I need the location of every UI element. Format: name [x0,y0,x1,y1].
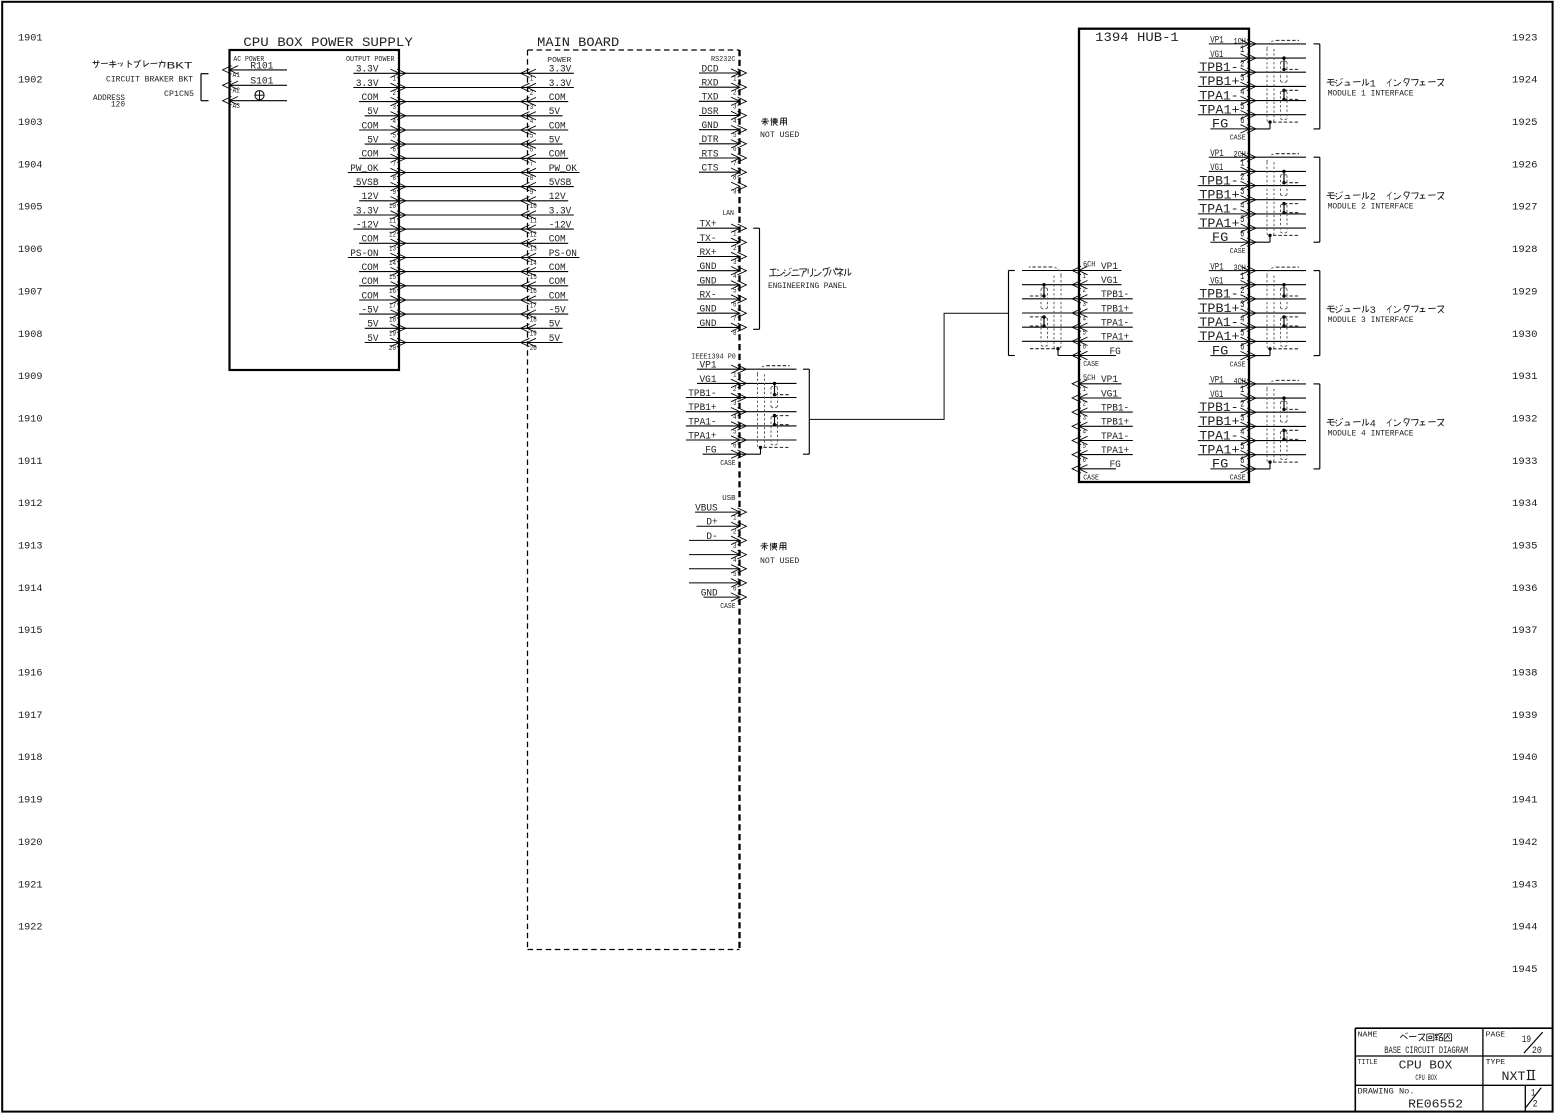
svg-text:1: 1 [530,76,534,84]
svg-text:1936: 1936 [1512,584,1538,595]
svg-text:5: 5 [733,428,737,436]
svg-text:5: 5 [1083,443,1087,451]
svg-text:DTR: DTR [702,135,719,146]
svg-text:CASE: CASE [1083,361,1099,369]
svg-text:19: 19 [389,331,396,339]
svg-text:3.3V: 3.3V [549,79,572,90]
svg-text:TITLE: TITLE [1358,1059,1378,1067]
svg-text:7: 7 [733,316,737,324]
svg-text:1941: 1941 [1512,796,1538,807]
svg-text:5VSB: 5VSB [549,178,572,189]
svg-text:1915: 1915 [18,626,43,637]
svg-text:1934: 1934 [1512,499,1538,510]
svg-text:COM: COM [549,277,566,288]
svg-text:5V: 5V [549,136,561,147]
svg-text:NAME: NAME [1358,1031,1379,1039]
svg-text:1922: 1922 [18,923,43,934]
svg-text:-5V: -5V [549,306,567,317]
svg-text:1: 1 [733,75,737,83]
svg-text:6: 6 [733,301,737,309]
svg-text:1942: 1942 [1512,838,1538,849]
svg-text:MODULE 3 INTERFACE: MODULE 3 INTERFACE [1328,316,1414,325]
svg-text:8: 8 [530,175,534,183]
svg-text:120: 120 [111,100,125,109]
svg-text:16: 16 [389,288,396,296]
svg-text:TPA1-: TPA1- [1199,203,1238,217]
svg-text:7: 7 [733,160,737,168]
svg-text:CASE: CASE [720,460,735,468]
svg-text:17: 17 [389,302,396,310]
svg-text:GND: GND [700,276,717,287]
svg-text:1: 1 [1083,386,1087,394]
svg-text:14: 14 [389,260,396,268]
svg-text:1921: 1921 [18,880,43,891]
svg-text:1929: 1929 [1512,287,1538,298]
svg-text:20: 20 [1532,1046,1542,1057]
svg-text:MODULE 1 INTERFACE: MODULE 1 INTERFACE [1328,89,1414,98]
svg-text:1938: 1938 [1512,669,1538,680]
svg-text:RS232C: RS232C [711,56,736,64]
svg-text:VP1: VP1 [1101,262,1118,273]
svg-text:14: 14 [530,260,537,268]
svg-text:1931: 1931 [1512,372,1538,383]
svg-text:7: 7 [393,161,397,169]
svg-text:NXT: NXT [1502,1070,1527,1084]
svg-text:NOT USED: NOT USED [760,557,800,566]
svg-text:MODULE 2 INTERFACE: MODULE 2 INTERFACE [1328,203,1414,212]
svg-text:5: 5 [733,287,737,295]
svg-text:PW_OK: PW_OK [350,164,379,175]
svg-text:2: 2 [530,90,534,98]
svg-text:COM: COM [549,263,566,274]
svg-text:1937: 1937 [1512,626,1538,637]
svg-text:A1: A1 [233,72,240,80]
svg-text:1939: 1939 [1512,711,1538,722]
svg-text:3.3V: 3.3V [356,79,379,90]
svg-text:2: 2 [733,386,737,394]
svg-text:5V: 5V [367,320,379,331]
svg-text:GND: GND [700,319,717,330]
svg-text:TPB1+: TPB1+ [1199,302,1239,316]
svg-text:18: 18 [530,317,537,325]
svg-text:20: 20 [389,345,396,353]
svg-text:S101: S101 [250,77,273,88]
svg-text:1905: 1905 [18,203,43,214]
svg-text:1943: 1943 [1512,880,1538,891]
svg-text:TPB1-: TPB1- [1101,290,1129,301]
svg-text:FG: FG [1212,344,1228,358]
svg-text:VG1: VG1 [1210,276,1223,287]
svg-text:COM: COM [549,93,566,104]
svg-text:CP1CN5: CP1CN5 [164,90,194,99]
svg-text:VG1: VG1 [700,375,717,386]
svg-text:4: 4 [1083,315,1087,323]
svg-text:1923: 1923 [1512,33,1538,44]
svg-text:TPB1-: TPB1- [1199,61,1238,75]
svg-text:5: 5 [393,132,397,140]
svg-text:PS-ON: PS-ON [350,249,378,260]
svg-text:5V: 5V [549,334,561,345]
svg-text:BASE CIRCUIT DIAGRAM: BASE CIRCUIT DIAGRAM [1384,1045,1468,1057]
svg-text:1906: 1906 [18,245,43,256]
svg-text:2: 2 [1083,287,1087,295]
svg-text:FG: FG [1110,460,1121,471]
svg-text:1944: 1944 [1512,923,1538,934]
svg-text:1: 1 [733,231,737,239]
svg-text:2: 2 [393,90,397,98]
svg-text:1933: 1933 [1512,457,1538,468]
svg-text:1924: 1924 [1512,76,1538,87]
svg-text:1902: 1902 [18,76,43,87]
svg-text:MODULE 4 INTERFACE: MODULE 4 INTERFACE [1328,429,1414,438]
svg-text:4: 4 [1083,429,1087,437]
svg-text:17: 17 [530,302,537,310]
svg-text:5: 5 [733,571,737,579]
svg-text:TPA1+: TPA1+ [1199,103,1239,117]
svg-text:1910: 1910 [18,415,43,426]
svg-text:5V: 5V [367,334,379,345]
svg-text:4: 4 [530,118,534,126]
svg-text:5: 5 [733,132,737,140]
svg-text:6: 6 [530,147,534,155]
svg-text:12V: 12V [362,192,380,203]
svg-text:COM: COM [362,235,379,246]
svg-text:TPA1-: TPA1- [1199,429,1238,443]
svg-text:8: 8 [733,175,737,183]
svg-text:GND: GND [700,262,717,273]
svg-text:BKT: BKT [167,61,193,73]
svg-text:13: 13 [389,246,396,254]
svg-text:GND: GND [702,121,719,132]
svg-text:PAGE: PAGE [1486,1031,1506,1039]
svg-text:7: 7 [530,161,534,169]
svg-text:CIRCUIT BRAKER BKT: CIRCUIT BRAKER BKT [106,75,193,84]
svg-text:TX-: TX- [700,234,717,245]
svg-text:1907: 1907 [18,287,43,298]
svg-text:1926: 1926 [1512,160,1538,171]
svg-text:1932: 1932 [1512,415,1538,426]
svg-text:VP1: VP1 [1210,149,1223,160]
svg-text:3: 3 [1083,301,1087,309]
svg-text:2: 2 [1533,1100,1538,1111]
svg-text:3.3V: 3.3V [356,206,379,217]
svg-text:VP1: VP1 [1210,262,1223,273]
svg-text:2: 2 [1083,400,1087,408]
svg-text:TPB1-: TPB1- [1101,404,1129,415]
svg-text:5V: 5V [549,320,561,331]
svg-text:1919: 1919 [18,796,43,807]
svg-text:3: 3 [733,543,737,551]
svg-text:5: 5 [530,132,534,140]
svg-text:RTS: RTS [702,149,719,160]
svg-text:RX-: RX- [700,290,717,301]
svg-text:NOT USED: NOT USED [760,131,800,140]
svg-text:VG1: VG1 [1210,390,1223,401]
svg-text:GND: GND [700,305,717,316]
svg-text:D-: D- [706,532,717,543]
svg-text:TPB1+: TPB1+ [1199,75,1239,89]
svg-text:3: 3 [393,104,397,112]
svg-text:1928: 1928 [1512,245,1538,256]
svg-text:4: 4 [733,557,737,565]
svg-text:5V: 5V [367,107,379,118]
svg-text:12V: 12V [549,192,567,203]
svg-text:1: 1 [733,515,737,523]
svg-text:2: 2 [733,529,737,537]
svg-text:2: 2 [733,90,737,98]
svg-text:1: 1 [393,76,397,84]
svg-text:VG1: VG1 [1101,389,1118,400]
svg-text:TYPE: TYPE [1486,1059,1506,1067]
svg-text:CPU BOX: CPU BOX [1399,1058,1453,1072]
svg-text:1: 1 [733,372,737,380]
svg-text:1: 1 [1083,273,1087,281]
svg-text:DSR: DSR [702,107,719,118]
svg-text:12: 12 [530,232,537,240]
svg-text:COM: COM [362,150,379,161]
svg-text:4: 4 [733,414,737,422]
svg-text:TPA1+: TPA1+ [1101,333,1129,344]
svg-text:TPA1-: TPA1- [1101,432,1129,443]
svg-text:3: 3 [530,104,534,112]
svg-text:-12V: -12V [356,221,379,232]
svg-text:6CH: 6CH [1083,261,1096,270]
svg-text:5: 5 [1083,330,1087,338]
svg-text:1912: 1912 [18,499,43,510]
svg-text:TPB1+: TPB1+ [1101,418,1129,429]
svg-text:1916: 1916 [18,669,43,680]
svg-text:16: 16 [530,288,537,296]
svg-text:1917: 1917 [18,711,43,722]
svg-text:R101: R101 [250,61,273,72]
svg-text:VP1: VP1 [700,361,717,372]
svg-text:6: 6 [1083,457,1087,465]
svg-text:1940: 1940 [1512,753,1538,764]
svg-text:TPB1-: TPB1- [1199,174,1238,188]
svg-text:19: 19 [530,331,537,339]
svg-text:3: 3 [733,400,737,408]
svg-text:CPU BOX: CPU BOX [1415,1074,1437,1083]
svg-text:9: 9 [393,189,397,197]
svg-text:GND: GND [701,589,718,600]
svg-text:D+: D+ [706,518,717,529]
svg-text:1945: 1945 [1512,965,1538,976]
svg-text:CTS: CTS [702,164,719,175]
svg-text:1903: 1903 [18,118,43,129]
svg-text:COM: COM [362,121,379,132]
svg-text:1909: 1909 [18,372,43,383]
svg-text:TPB1+: TPB1+ [1101,304,1129,315]
svg-text:20: 20 [530,345,537,353]
svg-text:1914: 1914 [18,584,43,595]
svg-text:CASE: CASE [1230,248,1246,256]
svg-text:CASE: CASE [1230,361,1246,369]
svg-text:DCD: DCD [702,64,719,75]
svg-text:5V: 5V [367,136,379,147]
svg-text:VP1: VP1 [1101,375,1118,386]
svg-text:TPA1+: TPA1+ [1101,446,1129,457]
svg-text:OUTPUT POWER: OUTPUT POWER [346,56,395,64]
svg-text:1925: 1925 [1512,118,1538,129]
svg-text:-12V: -12V [549,221,572,232]
svg-text:TPB1+: TPB1+ [688,403,716,414]
svg-text:3: 3 [1083,415,1087,423]
svg-text:CASE: CASE [1230,475,1246,483]
svg-text:COM: COM [549,291,566,302]
svg-text:CPU BOX POWER SUPPLY: CPU BOX POWER SUPPLY [243,35,413,50]
svg-text:PS-ON: PS-ON [549,249,577,260]
svg-text:TXD: TXD [702,93,719,104]
svg-text:18: 18 [389,317,396,325]
svg-text:VP1: VP1 [1210,36,1223,47]
svg-text:8: 8 [733,330,737,338]
svg-text:VG1: VG1 [1101,276,1118,287]
svg-text:TPB1+: TPB1+ [1199,415,1239,429]
svg-text:1930: 1930 [1512,330,1538,341]
svg-text:TPA1-: TPA1- [1199,316,1238,330]
svg-text:VG1: VG1 [1210,163,1223,174]
svg-text:FG: FG [705,446,716,457]
svg-text:3.3V: 3.3V [356,65,379,76]
svg-text:COM: COM [362,291,379,302]
svg-text:TX+: TX+ [700,220,717,231]
svg-text:COM: COM [362,263,379,274]
svg-text:2: 2 [733,245,737,253]
svg-text:12: 12 [389,232,396,240]
svg-text:6: 6 [733,442,737,450]
svg-text:3: 3 [733,104,737,112]
svg-text:3.3V: 3.3V [549,206,572,217]
svg-text:A3: A3 [233,103,240,111]
svg-text:4: 4 [733,273,737,281]
svg-text:VP1: VP1 [1210,376,1223,387]
svg-text:5CH: 5CH [1083,374,1096,383]
svg-text:TPA1-: TPA1- [1199,89,1238,103]
svg-text:PW_OK: PW_OK [549,164,578,175]
svg-text:13: 13 [530,246,537,254]
svg-text:1904: 1904 [18,160,43,171]
svg-text:MAIN BOARD: MAIN BOARD [537,35,619,50]
svg-text:6: 6 [1083,344,1087,352]
svg-text:USB: USB [722,495,736,503]
svg-text:FG: FG [1212,231,1228,245]
svg-text:-5V: -5V [362,306,380,317]
svg-text:TPA1+: TPA1+ [1199,330,1239,344]
svg-text:COM: COM [362,93,379,104]
svg-text:TPA1+: TPA1+ [688,431,716,442]
svg-text:TPA1-: TPA1- [1101,319,1129,330]
svg-text:DRAWING No.: DRAWING No. [1358,1088,1415,1097]
svg-text:11: 11 [530,217,537,225]
svg-text:1920: 1920 [18,838,43,849]
svg-text:COM: COM [549,235,566,246]
svg-text:4: 4 [733,118,737,126]
svg-text:VG1: VG1 [1210,50,1223,61]
svg-text:15: 15 [389,274,396,282]
svg-text:1918: 1918 [18,753,43,764]
svg-text:1927: 1927 [1512,203,1538,214]
svg-text:9: 9 [733,189,737,197]
svg-text:10: 10 [389,203,396,211]
svg-text:1913: 1913 [18,542,43,553]
svg-text:1901: 1901 [18,33,43,44]
svg-text:A2: A2 [233,88,240,96]
svg-text:TPA1-: TPA1- [688,417,716,428]
svg-text:6: 6 [393,147,397,155]
svg-text:15: 15 [530,274,537,282]
svg-text:FG: FG [1212,118,1228,132]
svg-text:5V: 5V [549,107,561,118]
svg-text:4: 4 [393,118,397,126]
svg-text:3.3V: 3.3V [549,65,572,76]
svg-text:6: 6 [733,585,737,593]
svg-text:9: 9 [530,189,534,197]
svg-text:1935: 1935 [1512,542,1538,553]
svg-text:19: 19 [1522,1035,1531,1046]
svg-text:COM: COM [362,277,379,288]
svg-text:CASE: CASE [1083,474,1099,482]
svg-text:5VSB: 5VSB [356,178,379,189]
svg-text:TPB1-: TPB1- [1199,288,1238,302]
svg-text:1394 HUB-1: 1394 HUB-1 [1095,30,1179,45]
svg-text:TPB1-: TPB1- [1199,401,1238,415]
svg-text:1908: 1908 [18,330,43,341]
svg-text:3: 3 [733,259,737,267]
svg-text:TPB1+: TPB1+ [1199,188,1239,202]
svg-text:8: 8 [393,175,397,183]
svg-text:RX+: RX+ [700,248,717,259]
svg-text:FG: FG [1110,347,1121,358]
svg-text:10: 10 [530,203,537,211]
svg-text:6: 6 [733,146,737,154]
svg-text:RE06552: RE06552 [1408,1097,1463,1111]
svg-text:CASE: CASE [720,603,735,611]
svg-text:COM: COM [549,150,566,161]
svg-text:11: 11 [389,217,396,225]
svg-text:1911: 1911 [18,457,43,468]
svg-text:ENGINEERING PANEL: ENGINEERING PANEL [768,282,847,291]
svg-text:LAN: LAN [722,210,734,218]
svg-text:FG: FG [1212,458,1228,472]
svg-text:COM: COM [549,121,566,132]
svg-text:RXD: RXD [702,79,719,90]
svg-text:VBUS: VBUS [695,504,718,515]
svg-text:TPB1-: TPB1- [688,389,716,400]
svg-text:TPA1+: TPA1+ [1199,443,1239,457]
svg-text:TPA1+: TPA1+ [1199,217,1239,231]
svg-text:CASE: CASE [1230,135,1246,143]
